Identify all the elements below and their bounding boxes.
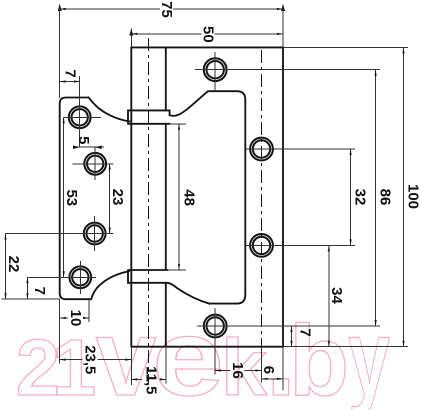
svg-text:b: b bbox=[289, 305, 349, 410]
watermark 21vek.by bbox=[16, 297, 391, 410]
dimension 10 bbox=[60, 317, 68, 319]
dimension 6 bbox=[262, 378, 284, 380]
svg-text:53: 53 bbox=[63, 189, 80, 206]
hole L2 horizontal centremark / 23 extension bbox=[73, 163, 114, 165]
right holes centerline bbox=[261, 50, 263, 348]
cutout top S-curve bbox=[170, 91, 208, 116]
hole L3 horizontal centremark / 22 extension bbox=[6, 233, 114, 235]
hole L4 vertical centremark bbox=[79, 261, 81, 294]
hole right upper bbox=[250, 138, 273, 161]
left leaf bottom S-curve bbox=[91, 271, 129, 299]
fold line right bbox=[165, 47, 167, 346]
hole L3 vertical centremark bbox=[94, 216, 96, 251]
svg-text:22: 22 bbox=[5, 256, 22, 273]
hole right upper horizontal centremark / 32 extension bbox=[246, 148, 355, 150]
dimension 23,5 bbox=[60, 359, 83, 361]
arrow on 75 left extension bbox=[58, 4, 62, 11]
hole L4 horizontal centremark / 7 extension bbox=[27, 276, 96, 278]
svg-text:11,5: 11,5 bbox=[143, 366, 160, 394]
dimension 16 bbox=[215, 370, 230, 372]
arrow on 75 right extension bbox=[281, 4, 285, 11]
knuckle band top bbox=[128, 110, 170, 123]
hole L1 horizontal centremark / 53 extension bbox=[64, 116, 102, 118]
svg-text:23: 23 bbox=[109, 189, 126, 206]
100 top extension line bbox=[283, 46, 408, 48]
6 right extension line bbox=[282, 347, 284, 391]
hole top vertical centremark bbox=[214, 52, 216, 91]
hole L4 bbox=[69, 266, 91, 288]
svg-text:7: 7 bbox=[62, 69, 79, 77]
cutout window bbox=[208, 91, 245, 303]
svg-text:6: 6 bbox=[260, 366, 277, 374]
right leaf rectangle bbox=[131, 47, 283, 346]
10 right extension line bbox=[88, 298, 90, 322]
hole top horizontal centremark / 86 extension bbox=[195, 69, 380, 71]
hole top bbox=[204, 58, 227, 81]
svg-text:7: 7 bbox=[31, 287, 48, 295]
dimension 22 bbox=[5, 234, 7, 300]
48 top extension tick bbox=[170, 123, 186, 125]
50 left extension line bbox=[130, 29, 132, 48]
hole right lower bbox=[250, 234, 273, 257]
svg-text:y: y bbox=[348, 297, 390, 410]
hole L3 bbox=[84, 223, 106, 245]
svg-text:5: 5 bbox=[75, 136, 92, 144]
svg-text:16: 16 bbox=[229, 362, 246, 379]
hole right lower horizontal centremark / 32-34 extension bbox=[246, 244, 355, 246]
hole bottom bbox=[204, 315, 227, 338]
svg-text:86: 86 bbox=[376, 189, 393, 206]
left leaf outline bbox=[60, 98, 91, 300]
75/50 right extension line bbox=[282, 5, 284, 48]
dimension 32 bbox=[350, 149, 352, 245]
dimension 23 bbox=[109, 164, 111, 234]
dimension 86 bbox=[375, 70, 377, 326]
svg-text:32: 32 bbox=[351, 189, 368, 206]
svg-text:48: 48 bbox=[180, 189, 197, 206]
hinge axis centerline bbox=[148, 38, 150, 384]
dimension 7 bottom left bbox=[26, 277, 28, 299]
dimension 100 bbox=[403, 47, 405, 346]
svg-text:34: 34 bbox=[328, 287, 345, 304]
dimension 11,5 bbox=[131, 378, 142, 380]
100/34/7 bottom extension line bbox=[283, 346, 408, 348]
dimension 75 bbox=[60, 8, 160, 10]
11,5 right extension line bbox=[165, 347, 167, 384]
48 bottom extension tick bbox=[168, 269, 186, 271]
svg-text:7: 7 bbox=[297, 328, 314, 336]
23,5/11,5 extension line below fold bbox=[130, 347, 132, 385]
hole L1 bbox=[69, 106, 91, 128]
svg-text:50: 50 bbox=[200, 26, 217, 43]
svg-text:10: 10 bbox=[67, 310, 84, 327]
hole L1 vertical centremark / 7 extension bbox=[79, 76, 81, 147]
svg-text:23,5: 23,5 bbox=[82, 345, 99, 374]
hole L2 vertical centremark / 5 extension bbox=[94, 147, 96, 180]
75 left extension line bbox=[59, 5, 61, 99]
dimension 7 right bbox=[291, 326, 293, 347]
dimension 53 bbox=[63, 117, 65, 277]
left leaf top S-curve bbox=[89, 97, 130, 121]
dimension 7 top left bbox=[60, 81, 80, 83]
dimension 5 bbox=[73, 146, 104, 148]
22/7 bottom edge extension line bbox=[2, 298, 60, 300]
hole L2 bbox=[84, 153, 106, 175]
dimension 48 bbox=[178, 124, 180, 270]
svg-text:75: 75 bbox=[158, 1, 175, 18]
dimension 34 bbox=[328, 245, 330, 346]
cutout bottom S-curve bbox=[168, 283, 210, 304]
knuckle band bottom bbox=[128, 270, 168, 283]
dimension 50 bbox=[131, 33, 201, 35]
svg-text:100: 100 bbox=[404, 184, 421, 209]
hole bottom vertical centremark / 16 extension bbox=[214, 308, 216, 375]
16/6 extension line at hole column bbox=[261, 348, 263, 383]
hole bottom horizontal centremark / 86 extension bbox=[197, 325, 380, 327]
arrow on 50 left extension bbox=[129, 29, 133, 36]
10/23,5 left extension line bbox=[59, 299, 61, 363]
